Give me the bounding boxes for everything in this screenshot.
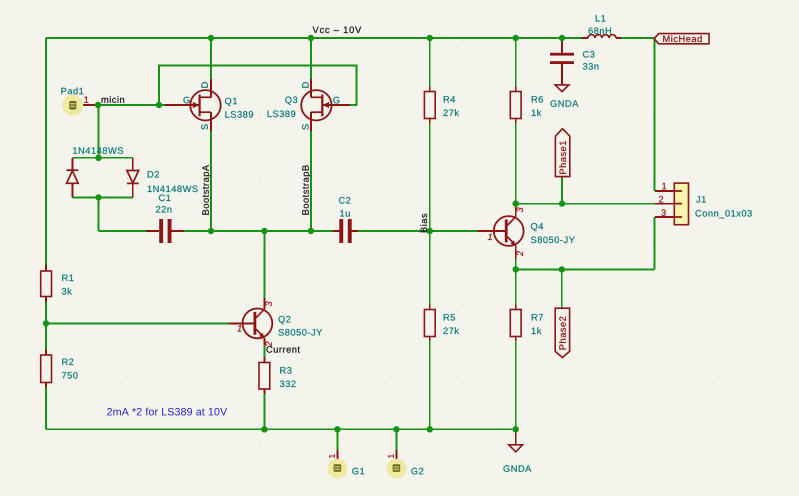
wire Q4 emitter down: [515, 259, 517, 270]
label Phase1 text: [559, 141, 566, 174]
resistor R6: [510, 92, 521, 119]
transistor Q4 internals: [505, 217, 516, 246]
wire Q2 base from divider: [46, 322, 229, 324]
pin number Q2 3: [265, 301, 272, 306]
capacitor C3: [550, 53, 574, 64]
label R2 ref: [62, 359, 73, 365]
junction at D2 bottom: [95, 194, 101, 200]
pin number Q4 3: [517, 207, 524, 212]
diode D2 unit B: [127, 171, 139, 184]
diode D2 unit A: [66, 170, 78, 183]
pin number Q4 2: [517, 251, 523, 256]
wire Phase1 to collector row: [561, 177, 563, 204]
resistor R4: [424, 92, 435, 119]
label Q3 value: [268, 111, 296, 118]
label C1 value: [156, 206, 171, 212]
pin G2: [395, 450, 397, 461]
wire D2 bottom rail: [72, 196, 132, 198]
inductor L1: [588, 35, 616, 38]
wire R3 bottom to ground rail: [263, 394, 265, 430]
junction at Q4 collector row: [513, 200, 519, 206]
pin R4 bottom: [429, 119, 431, 124]
pad Pad1 highlight: [62, 95, 83, 116]
wire J1 pin3 drop: [653, 217, 655, 269]
pin R4 top: [429, 87, 431, 92]
label R4 value: [443, 109, 459, 116]
pin R7 bottom: [515, 337, 517, 342]
label Q2 value: [278, 329, 322, 336]
junction at Q3 drain / Vcc: [308, 35, 314, 41]
resistor R5: [424, 310, 435, 337]
label D2 footprint: [73, 147, 123, 154]
resistor R3: [259, 363, 270, 390]
wire R6 top: [515, 38, 517, 87]
transistor Q2 body: [243, 309, 273, 339]
label Current net: [266, 346, 299, 353]
transistor Q4 body: [494, 216, 524, 246]
pin C3 bottom: [561, 64, 563, 85]
label micin net: [102, 96, 124, 103]
label R2 value: [62, 372, 78, 379]
junction at Phase2 row: [559, 266, 565, 272]
junction at R1 R2 divider: [43, 320, 49, 326]
label Q3 ref: [285, 97, 297, 105]
pin Q2 collector: [263, 298, 265, 309]
label Q1 value: [225, 111, 253, 118]
wire R6 to Q4 collector: [515, 123, 517, 203]
wire emitter row to J1 pin3: [516, 268, 655, 270]
ground GNDA bottom: [509, 445, 523, 452]
pin name Q3 D: [302, 82, 308, 88]
label L1 ref: [596, 15, 606, 21]
label Q4 value: [531, 237, 575, 244]
transistor Q1 body: [190, 90, 220, 120]
wire Q2 collector from C1 row: [263, 231, 265, 298]
junction at Pad1 / micin: [95, 102, 101, 108]
junction at Q2 collector / C row: [261, 228, 267, 234]
junction at C3 / Vcc: [559, 35, 565, 41]
pin J1 pin3 stub: [655, 216, 682, 218]
pin number G2 1: [388, 454, 394, 458]
pin number Q2 1: [237, 325, 241, 331]
wire bootstrap gate loop: [159, 66, 357, 106]
wire MicHead to J1 pin1: [653, 38, 655, 191]
comment note blue: [107, 408, 227, 416]
junction at bootstrap loop / micin: [156, 102, 162, 108]
transistor Q3 body: [301, 90, 331, 120]
label R3 ref: [280, 367, 291, 374]
wire R7 bottom to ground rail: [515, 341, 517, 429]
resistor R2: [41, 355, 52, 383]
transistor Q1 internals: [193, 95, 211, 117]
junction at R6 / Vcc: [513, 35, 519, 41]
label R5 value: [443, 327, 459, 334]
pin D2 right leg top: [132, 158, 134, 171]
pad G1 highlight: [327, 459, 347, 479]
label Phase2 text: [559, 317, 566, 350]
wire G1 stub: [336, 429, 338, 450]
pin number J1 2: [659, 196, 663, 202]
pin name Q1 D: [201, 82, 207, 88]
wire C1 to C2: [184, 230, 333, 232]
pin R1 bottom: [45, 297, 47, 302]
wire Vcc top rail left of L1: [46, 37, 582, 39]
wire Q1 drain to Vcc: [210, 38, 212, 79]
pin number Q2 2: [265, 341, 271, 346]
resistor R1: [41, 271, 52, 297]
transistor Q3 internals: [311, 95, 329, 117]
label R7 ref: [532, 314, 543, 320]
pin Q4 base: [477, 230, 505, 232]
wire left rail top (Vcc to R1): [45, 38, 47, 265]
pin D2 left leg top: [71, 158, 73, 170]
pin Q1 drain: [210, 79, 212, 97]
pin R3 top: [263, 358, 265, 363]
pin name Q1 G: [183, 97, 189, 104]
junction at Q4 emitter row: [513, 266, 519, 272]
label R1 value: [62, 288, 72, 295]
pin J1 pin2 stub: [655, 203, 682, 205]
label R4 ref: [444, 96, 455, 102]
capacitor C2: [339, 219, 351, 243]
resistor R7: [510, 310, 521, 337]
pin name Q3 G: [333, 97, 339, 104]
wire R5 bottom to ground rail: [429, 341, 431, 429]
pin C3 top: [561, 39, 563, 53]
label Bias net: [420, 214, 427, 233]
pin R3 bottom: [263, 389, 265, 394]
label Pad1 ref: [61, 87, 83, 94]
wire C2 to Q4 base: [358, 230, 477, 232]
label Vcc net: [313, 27, 362, 34]
junction at R7 / ground rail: [513, 426, 519, 432]
wire Q3 drain to Vcc: [310, 38, 312, 79]
pin R7 top: [515, 305, 517, 310]
label C2 ref: [339, 197, 350, 204]
label D2 ref: [148, 171, 159, 177]
pin C1 left: [146, 230, 159, 232]
pin L1 left: [582, 37, 588, 39]
wire D2 top rail: [72, 157, 132, 159]
hierarchical label Phase2: [555, 308, 569, 357]
hierarchical label Phase1: [555, 129, 569, 177]
pin Q1 source: [210, 112, 212, 131]
label R1 ref: [62, 275, 73, 281]
label D2 value: [148, 186, 198, 193]
pad G2 highlight: [386, 459, 406, 479]
junction at R3 / ground rail: [261, 426, 267, 432]
pin Q3 drain: [310, 79, 312, 97]
pin number Pad1 1: [84, 96, 88, 102]
label G2 ref: [411, 468, 423, 475]
wire Q4 collector row to J1 pin2: [516, 203, 655, 205]
wire R4 to Bias junction: [429, 123, 431, 231]
wire R4 top: [429, 38, 431, 87]
junction at Phase1 row: [559, 200, 565, 206]
wire R1 to R2 through base junction: [45, 302, 47, 350]
pin number Q4 1: [488, 234, 492, 240]
pin R6 top: [515, 87, 517, 92]
wire bottom ground rail: [46, 428, 516, 430]
label BootstrapB net: [302, 165, 310, 214]
wire micin net: [98, 104, 165, 106]
label GNDA under C3: [550, 100, 578, 107]
label Q1 ref: [225, 98, 237, 106]
label GNDA bottom: [503, 465, 531, 472]
label L1 value: [588, 28, 611, 35]
pin C2 left: [333, 230, 340, 232]
wire Q2 emitter to R3: [263, 346, 265, 358]
wire to C1 left: [99, 230, 147, 232]
pin number G1 1: [329, 454, 335, 458]
pin Q1 gate: [165, 104, 200, 106]
junction at Bias / C row: [427, 228, 433, 234]
pin R6 bottom: [515, 119, 517, 124]
junction at BootstrapB / C row: [308, 228, 314, 234]
pin Q2 emitter: [263, 338, 265, 346]
pin GNDA top symbol stem: [515, 429, 517, 445]
label BootstrapA net: [202, 165, 210, 215]
label R7 value: [532, 327, 542, 334]
pin name Q1 S: [201, 124, 208, 129]
capacitor C1: [159, 219, 171, 243]
junction at G1 / ground rail: [334, 426, 340, 432]
pin J1 pin1 stub: [655, 190, 682, 192]
pin R1 top: [45, 265, 47, 271]
label R5 ref: [444, 314, 455, 320]
label G1 ref: [352, 468, 364, 475]
wire D2 bottom to C1 row: [98, 197, 100, 231]
pin Q2 base: [229, 322, 254, 324]
label R6 value: [532, 109, 542, 116]
wire micin to D2 top: [98, 105, 100, 158]
wire emitter junction to R7: [515, 269, 517, 304]
pin name Q3 S: [302, 124, 309, 129]
label Q4 ref: [531, 223, 543, 231]
junction at Q1 drain / Vcc: [208, 35, 214, 41]
connector J1 body: [674, 183, 688, 225]
label MicHead text: [663, 35, 701, 42]
pin R2 top: [45, 350, 47, 355]
pin Q3 gate: [324, 104, 350, 106]
pin Q4 collector: [515, 204, 517, 217]
label C3 ref: [583, 51, 595, 58]
pin R5 top: [429, 305, 431, 310]
pin L1 right: [616, 37, 621, 39]
pin G1: [336, 450, 338, 461]
pin number J1 3: [661, 209, 665, 216]
pin R2 bottom: [45, 383, 47, 388]
wire Bias to R5: [429, 231, 431, 305]
junction at R4 / Vcc: [427, 35, 433, 41]
wire Q3 source to BootstrapB: [310, 131, 312, 231]
junction at R5 / ground rail: [427, 426, 433, 432]
label R3 value: [280, 381, 296, 388]
pin C1 right: [172, 230, 184, 232]
wire Q1 source to BootstrapA: [210, 131, 212, 231]
hierarchical label MicHead: [654, 34, 709, 44]
label J1 value: [695, 210, 751, 218]
wire R2 bottom to ground rail: [45, 388, 47, 430]
pin R5 bottom: [429, 337, 431, 342]
junction at D2 top: [95, 155, 101, 161]
wire G2 stub: [395, 429, 397, 450]
pin D2 left leg bottom: [71, 183, 73, 197]
label Q2 ref: [278, 316, 290, 324]
pin number J1 1: [662, 183, 666, 189]
pin Pad1: [79, 104, 98, 106]
pin C2 right: [352, 230, 358, 232]
label C1 ref: [159, 195, 170, 202]
transistor Q2 internals: [254, 309, 265, 338]
label R6 ref: [532, 96, 543, 103]
junction at BootstrapA / C row: [208, 228, 214, 234]
wire Vcc top rail right of L1: [616, 37, 654, 39]
label C2 value: [340, 210, 350, 216]
pin Q3 source: [310, 112, 312, 131]
label J1 ref: [696, 196, 706, 202]
ground GNDA under C3: [555, 85, 569, 92]
wire Phase2 from emitter row: [561, 269, 563, 308]
label C3 value: [583, 63, 599, 70]
junction at G2 / ground rail: [393, 426, 399, 432]
pin D2 right leg bottom: [132, 183, 134, 197]
pin Q4 emitter: [515, 246, 517, 259]
